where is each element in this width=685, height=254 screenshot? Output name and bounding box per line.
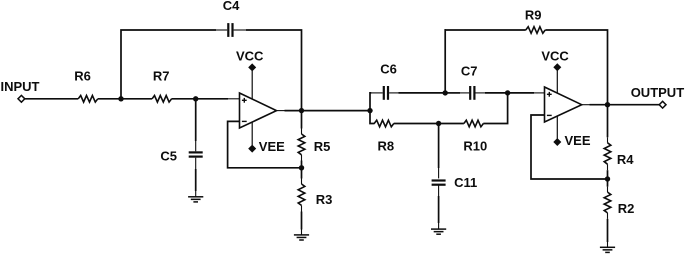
capacitor C4 bbox=[227, 23, 229, 37]
wire VEE2 bbox=[556, 114, 558, 139]
wire R6 to node A bbox=[98, 98, 121, 100]
node B junction bbox=[193, 96, 198, 101]
wire node F to C7 bbox=[445, 92, 460, 94]
svg-text:R8: R8 bbox=[377, 139, 394, 154]
wire node B to C5 bbox=[195, 99, 197, 141]
node H junction bbox=[436, 121, 441, 126]
wire R4 leads bbox=[607, 105, 609, 138]
capacitor C6 bbox=[383, 86, 385, 100]
ground under C5 bbox=[188, 196, 203, 198]
wire node H to R10 bbox=[439, 123, 464, 125]
wire C4 left leg and top bbox=[121, 30, 216, 99]
svg-text:INPUT: INPUT bbox=[1, 79, 40, 94]
node C junction bbox=[299, 108, 304, 113]
input terminal bbox=[18, 95, 25, 102]
ground under C11 bbox=[431, 228, 446, 230]
capacitor C7 bbox=[469, 86, 471, 100]
op-amp U1 bbox=[240, 93, 277, 128]
resistor R8 bbox=[374, 120, 394, 127]
svg-text:OUTPUT: OUTPUT bbox=[631, 85, 685, 100]
op-amp U2 bbox=[545, 87, 582, 122]
svg-text:VCC: VCC bbox=[236, 49, 264, 64]
wire node H to C11 bbox=[438, 124, 440, 169]
VCC1 symbol bbox=[248, 63, 256, 71]
wire R7 to op-amp U1 bbox=[172, 98, 229, 100]
wire R9 top left bbox=[445, 29, 526, 31]
svg-text:VCC: VCC bbox=[541, 49, 569, 64]
svg-text:C6: C6 bbox=[380, 61, 397, 76]
svg-text:C5: C5 bbox=[160, 149, 177, 164]
VCC2 symbol bbox=[553, 63, 561, 71]
wire U1 output bbox=[277, 110, 285, 112]
wire node G to op-amp U2 bbox=[508, 92, 534, 94]
node A junction bbox=[118, 96, 123, 101]
wire C7 to node G bbox=[475, 92, 485, 94]
svg-text:C7: C7 bbox=[461, 64, 478, 79]
resistor R10 bbox=[464, 120, 484, 127]
wire C4 lead right bbox=[234, 29, 246, 31]
node D junction bbox=[299, 165, 304, 170]
svg-text:R2: R2 bbox=[618, 201, 635, 216]
wire VCC1 bbox=[251, 69, 253, 99]
svg-text:C11: C11 bbox=[454, 175, 477, 190]
output terminal bbox=[659, 101, 666, 108]
wire VEE1 bbox=[251, 120, 253, 145]
ground under R2 bbox=[600, 246, 615, 248]
wire R9 left leg bbox=[444, 30, 447, 93]
svg-text:R9: R9 bbox=[525, 7, 542, 22]
svg-text:VEE: VEE bbox=[565, 133, 591, 148]
svg-text:R4: R4 bbox=[617, 152, 634, 167]
wire C6 to node F bbox=[389, 92, 398, 94]
ground under R3 bbox=[294, 234, 309, 236]
wire R5 leads bbox=[301, 111, 303, 129]
node E junction bbox=[367, 108, 372, 113]
wire input to R6 bbox=[25, 98, 78, 100]
wire node E up bbox=[370, 93, 371, 111]
node G junction bbox=[505, 90, 510, 95]
wire VCC2 bbox=[556, 69, 558, 93]
resistor R5 bbox=[298, 134, 305, 155]
wire node G down bbox=[483, 93, 507, 124]
wire node A to R7 bbox=[121, 98, 152, 100]
svg-text:R3: R3 bbox=[316, 192, 333, 207]
node I junction bbox=[605, 102, 610, 107]
wire R3 leads bbox=[301, 168, 303, 179]
VEE1 symbol bbox=[248, 145, 256, 153]
svg-text:R5: R5 bbox=[314, 139, 331, 154]
wire C11 to ground bbox=[438, 185, 440, 196]
wire R8 to node H bbox=[394, 123, 439, 125]
wire U2 inverting feedback bbox=[531, 115, 608, 179]
capacitor C5 bbox=[189, 151, 203, 153]
resistor R7 bbox=[152, 96, 172, 103]
wire R2 leads bbox=[607, 179, 609, 187]
wire U1 inverting feedback bbox=[228, 121, 302, 167]
svg-text:C4: C4 bbox=[223, 0, 240, 13]
wire C4 top right and right leg bbox=[246, 30, 302, 111]
svg-text:VEE: VEE bbox=[259, 139, 285, 154]
wire node E to C6 bbox=[371, 92, 383, 94]
resistor R6 bbox=[78, 96, 98, 103]
wire C4 lead left bbox=[216, 29, 227, 31]
resistor R4 bbox=[604, 143, 611, 164]
resistor R2 bbox=[604, 192, 611, 213]
wire R9 top right and right leg bbox=[545, 30, 607, 105]
wire node E down bbox=[370, 111, 375, 124]
resistor R3 bbox=[298, 184, 305, 205]
svg-text:R6: R6 bbox=[74, 68, 91, 83]
node J junction bbox=[605, 176, 610, 181]
capacitor C11 bbox=[432, 179, 446, 181]
wire U2 output bbox=[582, 104, 590, 106]
wire C5 to ground bbox=[195, 158, 197, 169]
resistor R9 bbox=[526, 27, 545, 34]
svg-text:R10: R10 bbox=[463, 139, 487, 154]
svg-text:R7: R7 bbox=[153, 68, 170, 83]
VEE2 symbol bbox=[553, 138, 561, 146]
node F junction bbox=[443, 90, 448, 95]
